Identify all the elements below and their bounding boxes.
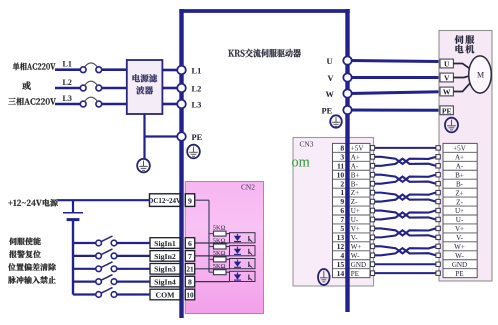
terminal box SigIn1 — [150, 238, 180, 249]
encoder stub B- — [436, 181, 440, 185]
terminal W — [343, 89, 351, 97]
svg-text:4: 4 — [340, 251, 344, 260]
svg-text:COM: COM — [155, 290, 175, 299]
CN3 stub pin 13 — [370, 235, 374, 240]
wire L1 supply — [55, 68, 80, 71]
svg-text:7: 7 — [188, 252, 192, 261]
svg-text:6: 6 — [340, 206, 344, 215]
wire +24V internal bus — [208, 200, 210, 272]
wire L1 to filter — [102, 68, 127, 71]
label pulse input inhibit — [8, 276, 56, 284]
wire L2 supply — [55, 87, 80, 90]
encoder stub B+ — [436, 173, 440, 177]
wire L2 to filter — [102, 87, 127, 90]
wire U drive to motor — [349, 61, 441, 62]
optocoupler U1 — [230, 233, 256, 243]
svg-text:W+: W+ — [454, 243, 465, 251]
terminal box SigIn2 — [150, 251, 180, 262]
svg-text:8: 8 — [188, 278, 192, 287]
svg-text:L3: L3 — [192, 100, 202, 109]
svg-text:9: 9 — [188, 196, 192, 205]
encoder stub Z- — [436, 199, 440, 203]
svg-text:L2: L2 — [63, 78, 72, 87]
svg-text:Z-: Z- — [456, 198, 463, 206]
power filter box — [127, 60, 163, 114]
switch S3 (SigIn3) — [73, 262, 150, 272]
svg-text:GND: GND — [351, 261, 366, 269]
svg-text:PE: PE — [192, 133, 203, 142]
svg-text:L2: L2 — [192, 84, 202, 93]
servo motor text line2 — [456, 45, 475, 54]
wire bus to R4 — [209, 271, 214, 273]
svg-text:L1: L1 — [63, 60, 72, 69]
svg-text:B+: B+ — [455, 171, 464, 179]
ground (filter earth) — [137, 159, 150, 173]
svg-text:A-: A- — [456, 162, 464, 170]
svg-text:SigIn1: SigIn1 — [154, 239, 176, 248]
CN3 stub pin 8 — [370, 146, 374, 151]
svg-text:W-: W- — [455, 252, 464, 260]
terminal PE (right) — [343, 106, 351, 114]
label single-phase AC220V — [13, 63, 56, 71]
servo drive enclosure top edge — [179, 9, 349, 13]
encoder stub V- — [436, 235, 440, 239]
battery BT1 — [63, 213, 83, 220]
CN3 stub pin 15 — [370, 262, 374, 267]
power filter text line1 — [133, 74, 158, 82]
terminal box COM — [150, 289, 180, 300]
wire filter to earth (vertical) — [143, 114, 145, 137]
svg-text:V-: V- — [456, 234, 463, 242]
svg-text:V+: V+ — [455, 225, 464, 233]
svg-text:Z-: Z- — [351, 198, 358, 206]
wire SigIn1 to opto — [195, 242, 230, 244]
wire L3 supply — [55, 103, 80, 106]
svg-text:B-: B- — [456, 180, 464, 188]
terminal L1 — [177, 66, 186, 75]
title KRS AC servo drive — [228, 49, 301, 58]
wire encoder row PE — [375, 272, 436, 274]
wire encoder row GND — [375, 263, 436, 265]
terminal PE (drive left) — [177, 132, 186, 141]
wire bus to R3 — [209, 258, 214, 260]
servo motor text line1 — [455, 35, 475, 44]
CN3 stub pin 9 — [370, 199, 374, 204]
wire V drive to motor — [349, 76, 441, 79]
svg-text:CN2: CN2 — [241, 182, 255, 191]
wire earth to PE terminal — [145, 135, 178, 137]
svg-text:U: U — [444, 60, 450, 69]
svg-text:5KΩ: 5KΩ — [213, 250, 226, 257]
CN3 stub pin 1 — [370, 190, 374, 195]
wire pin9 internal — [195, 199, 209, 201]
encoder stub Z+ — [436, 190, 440, 194]
svg-text:SigIn2: SigIn2 — [154, 252, 176, 261]
label alarm reset — [9, 250, 41, 258]
wire earth drop — [143, 137, 145, 159]
svg-text:8: 8 — [340, 143, 344, 152]
svg-text:21: 21 — [186, 265, 194, 274]
svg-text:10: 10 — [337, 170, 345, 179]
svg-text:+5V: +5V — [453, 145, 467, 153]
wire R4 to opto — [226, 271, 230, 273]
wire twisted pair V+/V- — [375, 228, 436, 237]
motor terminal PE — [440, 106, 453, 115]
svg-text:3: 3 — [340, 152, 344, 161]
svg-text:U+: U+ — [455, 207, 464, 215]
optocoupler U4 — [230, 271, 256, 281]
svg-text:5KΩ: 5KΩ — [213, 263, 226, 270]
svg-text:U+: U+ — [351, 207, 360, 215]
wire +24V supply — [58, 199, 150, 201]
svg-text:W: W — [443, 88, 451, 97]
connector CN3 box — [293, 138, 374, 287]
label +12-24V supply — [8, 199, 57, 207]
svg-text:5KΩ: 5KΩ — [213, 237, 226, 244]
wire R2 to opto — [226, 246, 230, 248]
encoder stub U- — [436, 217, 440, 221]
CN3 stub pin 11 — [370, 163, 374, 168]
encoder stub W+ — [436, 244, 440, 248]
wire bus to R1 — [209, 233, 214, 235]
wire filter to L3 terminal — [162, 103, 177, 106]
svg-text:6: 6 — [188, 239, 192, 248]
svg-text:W: W — [326, 90, 335, 99]
encoder stub V+ — [436, 226, 440, 230]
svg-text:U: U — [327, 57, 333, 66]
CN3 stub pin 12 — [370, 244, 374, 249]
wire motor U to winding — [453, 64, 470, 70]
wire motor W to winding — [453, 82, 470, 91]
wire SigIn4 to opto — [195, 281, 230, 283]
svg-text:+5V: +5V — [351, 144, 365, 152]
svg-text:V: V — [444, 74, 450, 83]
svg-text:V-: V- — [351, 234, 358, 242]
svg-text:9: 9 — [340, 197, 344, 206]
wire to battery — [72, 200, 74, 212]
servo motor box — [439, 31, 492, 282]
wire W drive to motor — [349, 92, 441, 94]
label three-phase AC220V — [8, 98, 56, 106]
switch S1 (SigIn1) — [73, 236, 150, 246]
wire R1 to opto — [226, 233, 230, 235]
terminal box DC12-24V — [150, 194, 181, 207]
ground (CN3 PE) — [318, 269, 330, 285]
resistor R2 — [214, 244, 227, 249]
wire twisted pair A+/A- — [375, 157, 436, 166]
svg-text:U-: U- — [351, 216, 359, 224]
switch S2 (SigIn2) — [73, 249, 150, 259]
svg-text:PE: PE — [322, 106, 333, 115]
svg-text:M: M — [477, 71, 484, 80]
breaker L2 — [80, 81, 101, 91]
svg-text:SigIn3: SigIn3 — [154, 265, 176, 274]
pin box 8 — [185, 276, 194, 287]
wire SigIn2 to opto — [195, 255, 230, 257]
svg-text:L1: L1 — [192, 66, 202, 75]
svg-text:L3: L3 — [63, 94, 72, 103]
svg-text:14: 14 — [337, 269, 345, 278]
terminal box SigIn3 — [150, 264, 180, 275]
svg-text:V+: V+ — [351, 225, 360, 233]
svg-text:V: V — [328, 74, 334, 83]
motor winding M — [469, 56, 492, 93]
terminal box SigIn4 — [150, 276, 180, 287]
wire SigIn3 to opto — [195, 268, 230, 270]
svg-text:SigIn4: SigIn4 — [154, 278, 176, 287]
wire filter to L2 terminal — [162, 87, 177, 90]
encoder stub W- — [436, 253, 440, 257]
wire twisted pair W+/W- — [375, 246, 436, 255]
svg-text:11: 11 — [337, 161, 344, 170]
CN3 stub pin 10 — [370, 172, 374, 177]
pin box 6 — [185, 238, 194, 249]
terminal U — [343, 56, 351, 64]
encoder stub GND — [436, 262, 440, 266]
label position deviation clear — [8, 263, 56, 271]
pin box 7 — [185, 251, 194, 262]
CN3 stub pin 5 — [370, 226, 374, 231]
svg-text:Z+: Z+ — [455, 189, 463, 197]
power filter text line2 — [136, 86, 153, 94]
optocoupler U2 — [230, 246, 256, 256]
switch S4 (SigIn4) — [73, 275, 150, 285]
terminal L2 — [177, 84, 186, 93]
svg-text:PE: PE — [442, 106, 452, 115]
svg-text:A-: A- — [351, 162, 359, 170]
label or — [22, 81, 31, 89]
svg-text:5KΩ: 5KΩ — [213, 224, 226, 231]
svg-text:W+: W+ — [351, 243, 362, 251]
svg-text:12: 12 — [337, 242, 345, 251]
wire R3 to opto — [226, 258, 230, 260]
terminal L3 — [177, 100, 186, 109]
wire encoder row +5V — [375, 147, 436, 149]
wire bus to R2 — [209, 246, 214, 248]
servo drive enclosure right edge — [345, 9, 349, 312]
motor terminal W — [440, 87, 453, 96]
wire twisted pair Z+/Z- — [375, 193, 436, 202]
CN3 stub pin 2 — [370, 181, 374, 186]
wire twisted pair B+/B- — [375, 175, 436, 184]
svg-text:10: 10 — [186, 290, 194, 299]
svg-text:13: 13 — [337, 233, 345, 242]
wire motor V to winding — [453, 76, 469, 78]
svg-text:W-: W- — [351, 252, 360, 260]
encoder terminal table — [443, 143, 477, 277]
optocoupler U3 — [230, 259, 256, 269]
svg-text:5: 5 — [340, 224, 344, 233]
motor terminal V — [440, 73, 453, 82]
pin box 9 — [185, 194, 194, 207]
svg-text:U-: U- — [456, 216, 464, 224]
encoder stub +5V — [436, 146, 440, 150]
svg-text:GND: GND — [452, 261, 467, 269]
svg-text:A+: A+ — [351, 153, 360, 161]
resistor R1 — [214, 231, 227, 236]
CN3 stub pin 3 — [370, 155, 374, 160]
resistor R3 — [214, 257, 227, 262]
svg-text:B+: B+ — [351, 171, 360, 179]
svg-text:A+: A+ — [455, 154, 464, 162]
svg-text:om: om — [292, 154, 310, 170]
wire PE drive to motor — [349, 109, 441, 112]
svg-text:PE: PE — [351, 270, 359, 278]
svg-text:15: 15 — [337, 260, 345, 269]
wire battery to switch bus — [72, 220, 74, 295]
svg-text:Z+: Z+ — [351, 189, 359, 197]
CN3 stub pin 4 — [370, 253, 374, 258]
encoder stub A+ — [436, 155, 440, 159]
svg-text:DC12~24V: DC12~24V — [148, 197, 181, 205]
ground (drive right PE) — [330, 115, 342, 127]
wire twisted pair U+/U- — [375, 211, 436, 220]
svg-text:2: 2 — [340, 179, 344, 188]
pin box 10 — [185, 289, 194, 300]
CN3 stub pin 6 — [370, 208, 374, 213]
breaker L3 — [80, 97, 101, 107]
svg-text:1: 1 — [340, 188, 344, 197]
encoder stub PE — [436, 271, 440, 275]
pin box 21 — [185, 264, 194, 275]
CN3 stub pin 7 — [370, 217, 374, 222]
CN3 pin table — [333, 143, 371, 277]
svg-text:PE: PE — [455, 270, 463, 278]
svg-text:CN3: CN3 — [300, 139, 314, 148]
ground (drive PE) — [187, 145, 200, 159]
CN3 stub pin 14 — [370, 271, 374, 276]
breaker L1 — [80, 63, 101, 73]
switch S5 (COM) — [73, 288, 150, 298]
encoder stub U+ — [436, 208, 440, 212]
label servo enable — [9, 238, 41, 246]
motor terminal U — [440, 59, 453, 68]
wire filter to L1 terminal — [162, 69, 177, 72]
svg-text:B-: B- — [351, 180, 359, 188]
wire L3 to filter — [102, 103, 127, 106]
ground (motor PE) — [445, 118, 458, 133]
resistor R4 — [214, 270, 227, 275]
servo drive enclosure left edge — [179, 9, 183, 318]
encoder stub A- — [436, 164, 440, 168]
terminal V — [343, 73, 351, 81]
svg-text:7: 7 — [340, 215, 344, 224]
